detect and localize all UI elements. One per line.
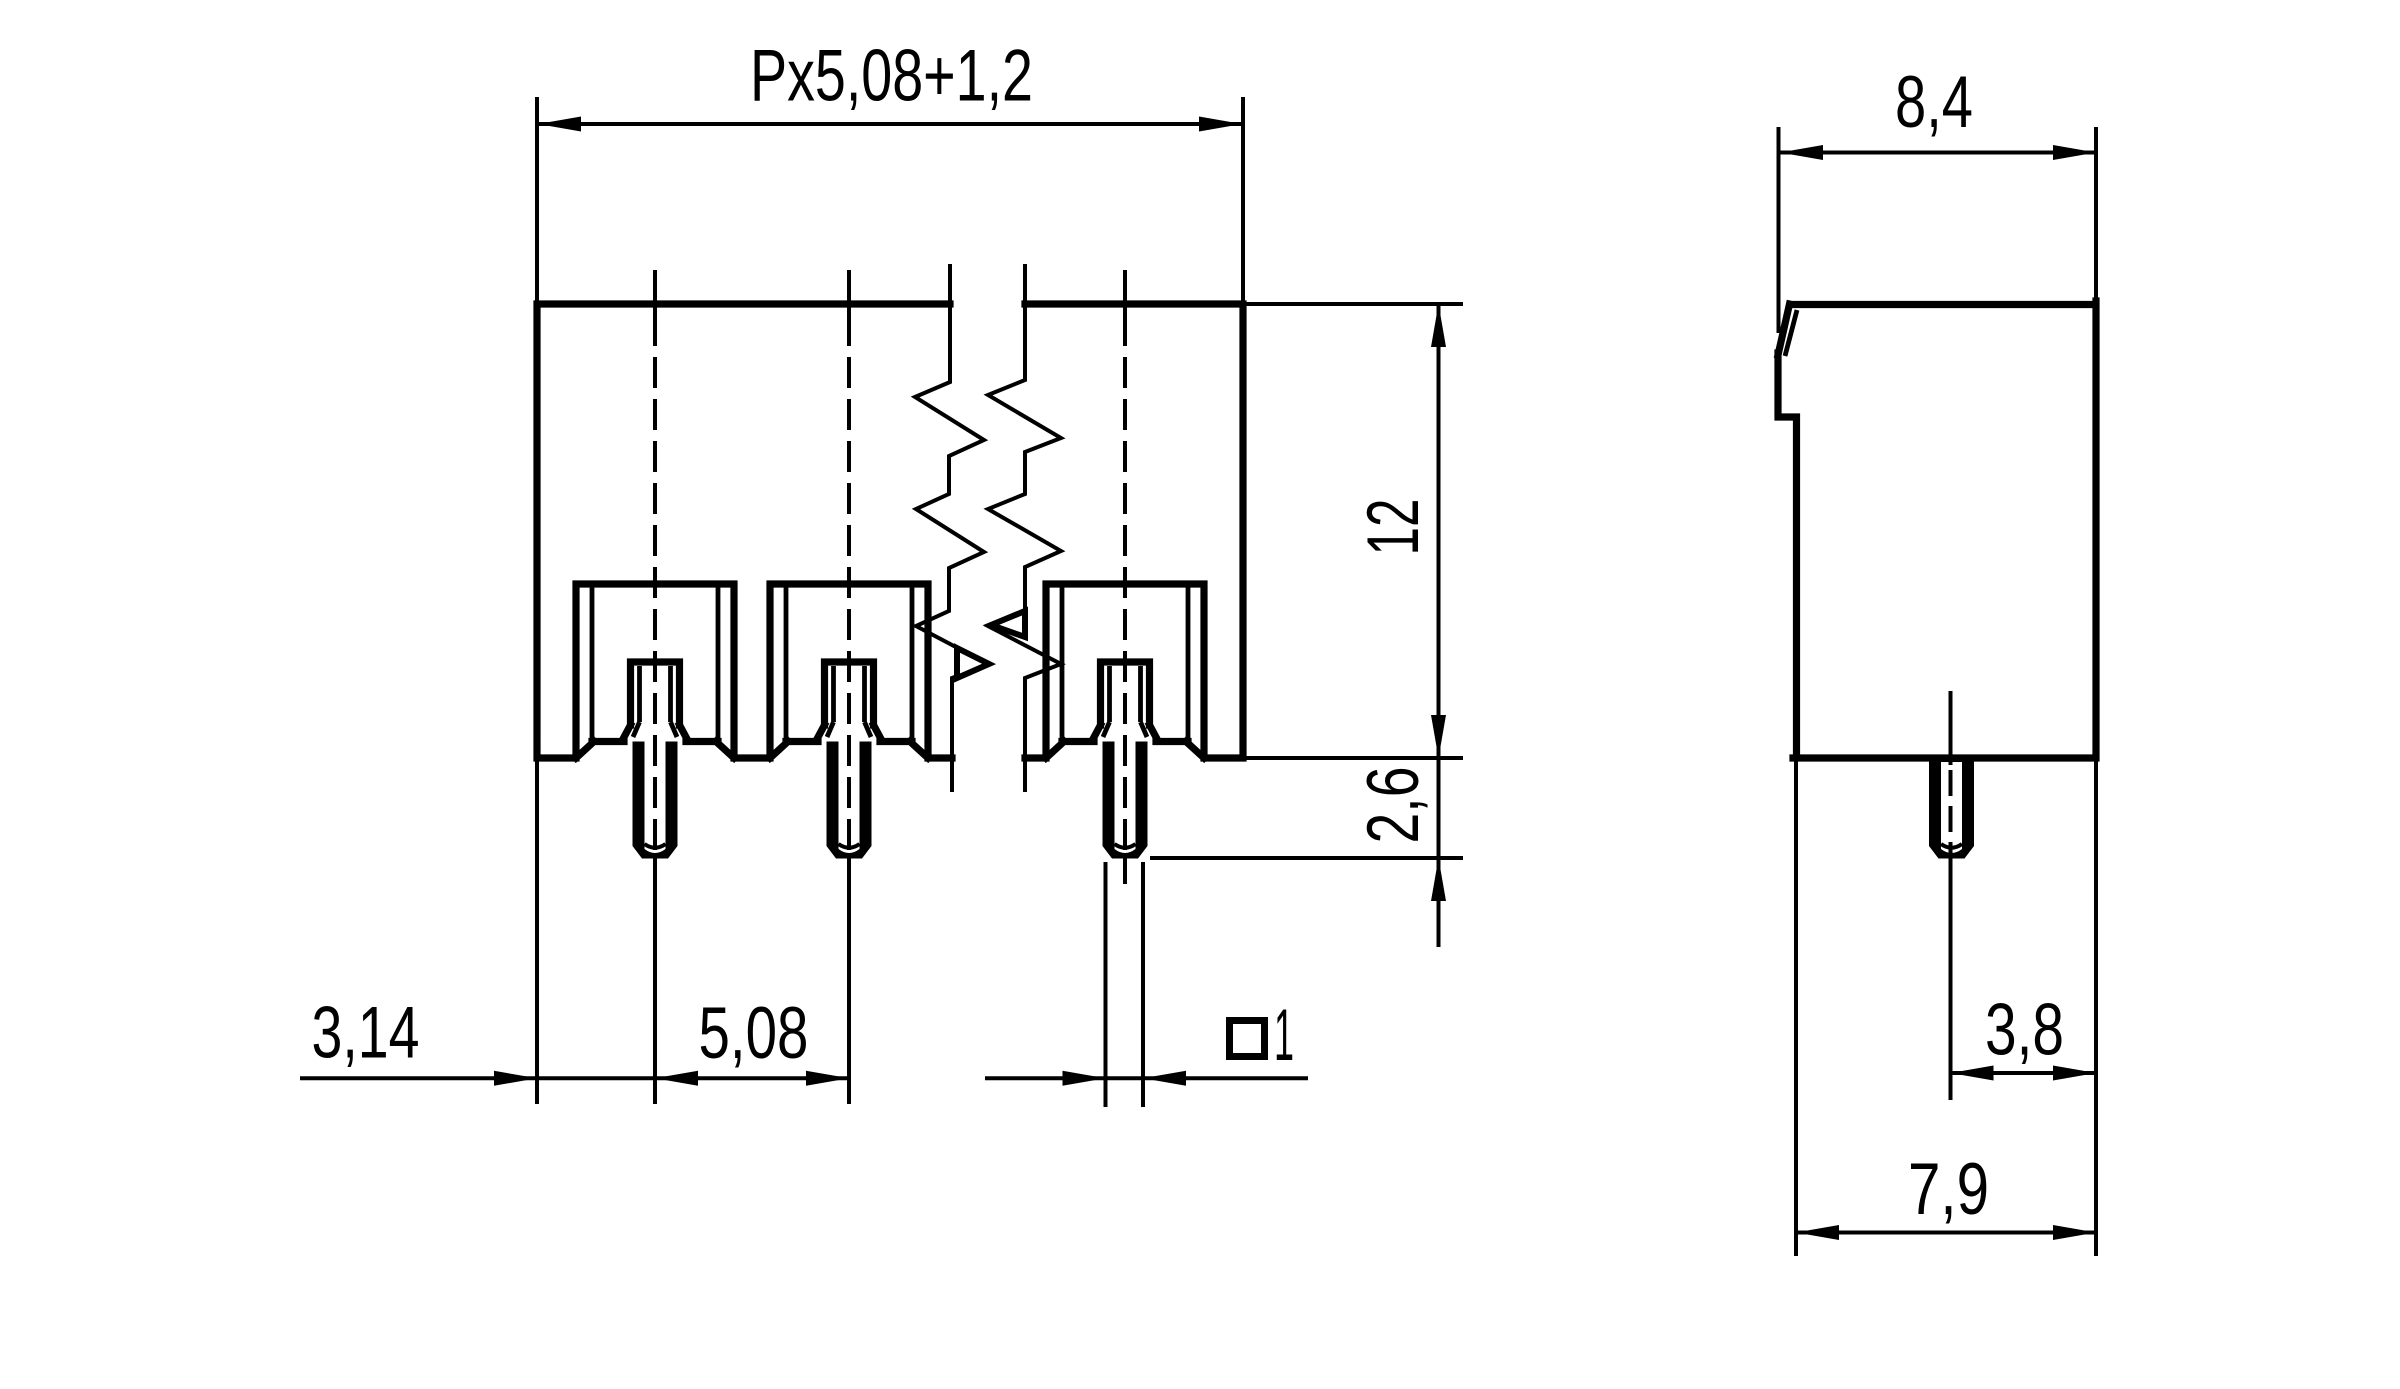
svg-text:12: 12 — [1353, 499, 1434, 556]
svg-text:3,14: 3,14 — [312, 993, 420, 1074]
svg-text:1: 1 — [1274, 995, 1294, 1076]
svg-text:5,08: 5,08 — [699, 993, 809, 1074]
svg-text:2,6: 2,6 — [1353, 767, 1434, 844]
svg-text:8,4: 8,4 — [1895, 62, 1973, 143]
svg-text:7,9: 7,9 — [1908, 1149, 1989, 1230]
svg-text:Px5,08+1,2: Px5,08+1,2 — [750, 36, 1033, 117]
svg-text:3,8: 3,8 — [1985, 990, 2064, 1071]
